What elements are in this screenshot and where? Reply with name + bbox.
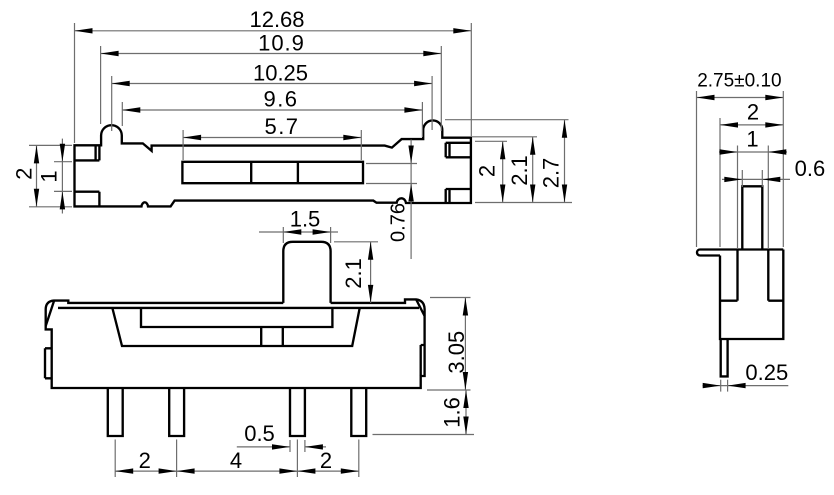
side view shelf lines bbox=[720, 300, 783, 302]
pin pitch extension lines bbox=[115, 440, 359, 478]
dimension 4 pin pitch middle bbox=[177, 448, 298, 474]
dimension 1 left bbox=[37, 139, 66, 214]
dimension 1.6 pin length bbox=[373, 390, 475, 435]
dimension 12.68 bbox=[75, 7, 472, 34]
right extension lines bbox=[445, 120, 572, 203]
svg-text:0.6: 0.6 bbox=[795, 156, 826, 181]
dimension 2 pin pitch right bbox=[297, 448, 358, 474]
left extension lines bbox=[29, 145, 72, 206]
front view left side tab bbox=[45, 348, 52, 378]
svg-text:0.5: 0.5 bbox=[244, 421, 275, 446]
svg-text:2.75±0.10: 2.75±0.10 bbox=[697, 71, 781, 92]
dimension 2 pin pitch left bbox=[115, 448, 176, 474]
svg-text:5.7: 5.7 bbox=[264, 114, 299, 139]
svg-text:1: 1 bbox=[37, 170, 62, 182]
top view left bracket bottom tab bbox=[75, 192, 100, 207]
dimension 9.6 bbox=[122, 87, 422, 113]
dimension 2.1 right bbox=[507, 137, 535, 203]
front view body outline bbox=[46, 299, 425, 388]
svg-text:0.25: 0.25 bbox=[745, 360, 788, 385]
dimension 2 left bbox=[12, 145, 40, 206]
dimension 2 right bbox=[475, 141, 506, 202]
top view switch body outline bbox=[75, 120, 471, 206]
front view inner trapezoid bbox=[113, 309, 360, 347]
svg-text:2.1: 2.1 bbox=[507, 155, 532, 186]
svg-text:2.7: 2.7 bbox=[539, 158, 564, 189]
front view actuator stem bbox=[261, 327, 283, 346]
svg-text:2: 2 bbox=[12, 168, 37, 180]
svg-text:1.6: 1.6 bbox=[440, 397, 465, 428]
dimension 0.6 knob width bbox=[722, 156, 825, 187]
front view right ear fold line bbox=[416, 299, 425, 316]
svg-text:1: 1 bbox=[746, 127, 758, 152]
svg-text:0.76: 0.76 bbox=[388, 203, 410, 242]
side view actuator knob bbox=[742, 186, 762, 249]
side view slot left wall bbox=[736, 250, 738, 301]
front view actuator knob bbox=[283, 242, 330, 303]
dimension 2.1 knob height bbox=[334, 242, 378, 303]
svg-text:4: 4 bbox=[230, 448, 242, 473]
dimension 2.75±0.10 bbox=[697, 71, 784, 101]
side view pin bbox=[721, 339, 728, 376]
dimension 2.75 extension lines bbox=[697, 91, 784, 247]
dimension 0.5 pin width bbox=[237, 421, 326, 452]
top view right bracket top tab bbox=[446, 143, 471, 158]
dimension 10.25 bbox=[112, 61, 432, 87]
front view pin 4 bbox=[351, 388, 366, 436]
svg-text:2.1: 2.1 bbox=[341, 258, 366, 289]
svg-text:9.6: 9.6 bbox=[263, 87, 298, 112]
svg-text:12.68: 12.68 bbox=[249, 7, 304, 32]
svg-text:2: 2 bbox=[139, 448, 151, 473]
top view left bracket top tab bbox=[75, 145, 100, 160]
dimension 0.76 slot height bbox=[366, 140, 417, 260]
dimension 3.05 body height bbox=[427, 298, 471, 391]
front view pin 3 bbox=[290, 388, 305, 436]
front view pin 1 bbox=[108, 388, 123, 436]
front view pin 2 bbox=[169, 388, 184, 436]
svg-text:2: 2 bbox=[475, 165, 500, 177]
svg-text:10.25: 10.25 bbox=[253, 61, 308, 86]
dimension 0.25 pin width bbox=[703, 360, 789, 392]
side view slot right wall bbox=[767, 250, 769, 301]
dimension 10.9 bbox=[101, 31, 442, 57]
svg-text:10.9: 10.9 bbox=[258, 31, 305, 56]
dimension 1 side bbox=[719, 127, 787, 250]
top view right bracket bottom tab bbox=[446, 189, 471, 203]
dimension 1.5 knob width bbox=[259, 207, 338, 244]
front view slot opening bbox=[141, 309, 332, 328]
svg-text:3.05: 3.05 bbox=[444, 331, 469, 374]
svg-text:2: 2 bbox=[747, 100, 759, 125]
front view left ear fold line bbox=[46, 301, 54, 326]
side view body outline bbox=[697, 250, 783, 340]
front view flange bottom line bbox=[58, 307, 419, 309]
svg-text:2: 2 bbox=[320, 448, 332, 473]
extension lines for width dims bbox=[75, 23, 472, 160]
svg-text:1.5: 1.5 bbox=[290, 207, 321, 232]
top view slider slot with 3 cells bbox=[182, 162, 363, 183]
dimension 5.7 bbox=[183, 114, 361, 140]
dimension 2 side bbox=[720, 100, 783, 248]
dimension 2.7 right bbox=[539, 120, 568, 203]
front view right side tab bbox=[421, 345, 425, 376]
